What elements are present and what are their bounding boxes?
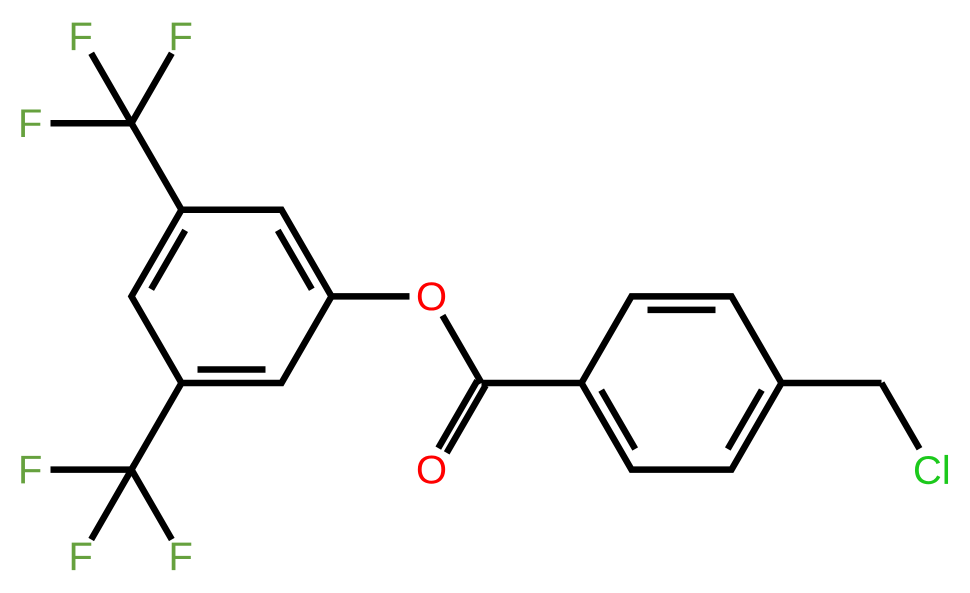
fluorine label F1 — [72, 23, 92, 51]
bond C7 to ring1 C3 — [132, 123, 182, 210]
benzene ring 1 (3,5-bis(trifluoromethyl)phenyl) — [132, 210, 332, 383]
ring2 inner double line C2-C3 — [648, 307, 716, 314]
bond CH2 C10 to Cl — [882, 383, 920, 449]
bond C8 to ring1 C5 — [132, 383, 182, 470]
chlorine label Cl — [915, 455, 948, 484]
oxygen label O1 (ester) — [418, 282, 445, 310]
ring1 inner double line C4-C3 — [151, 230, 185, 289]
bond C8-F4 — [51, 466, 132, 473]
fluorine label F6 — [172, 543, 192, 571]
bond carbonyl C9 to ring2 C1 — [482, 380, 582, 387]
bond C7-F3 — [51, 120, 132, 127]
bonds C7-F1 and C7-F2 (top CF3) — [91, 53, 172, 123]
fluorine label F5 — [72, 543, 92, 571]
oxygen label O2 (carbonyl) — [418, 455, 445, 483]
ring2 inner double line C6-C1 — [601, 390, 635, 449]
fluorine label F3 — [21, 109, 41, 137]
fluorine label F2 — [172, 23, 192, 51]
bond ester O1 to carbonyl C9 — [443, 316, 482, 384]
fluorine label F4 — [21, 456, 41, 484]
bond ring2 C4 to CH2 C10 — [782, 380, 882, 387]
carbonyl C9=O2 double bond line a — [438, 381, 477, 449]
benzene ring 2 (4-(chloromethyl)phenyl) — [582, 296, 782, 469]
carbonyl C9=O2 double bond line b — [447, 385, 486, 453]
ring1 inner double line C2-C1 — [278, 230, 312, 289]
bond ring1 C1 to ester O1 — [332, 293, 410, 300]
ring1 inner double line C6-C5 — [198, 366, 266, 373]
bonds C8-F5 and C8-F6 (bottom CF3) — [91, 470, 172, 540]
ring2 inner double line C4-C5 — [728, 390, 762, 449]
